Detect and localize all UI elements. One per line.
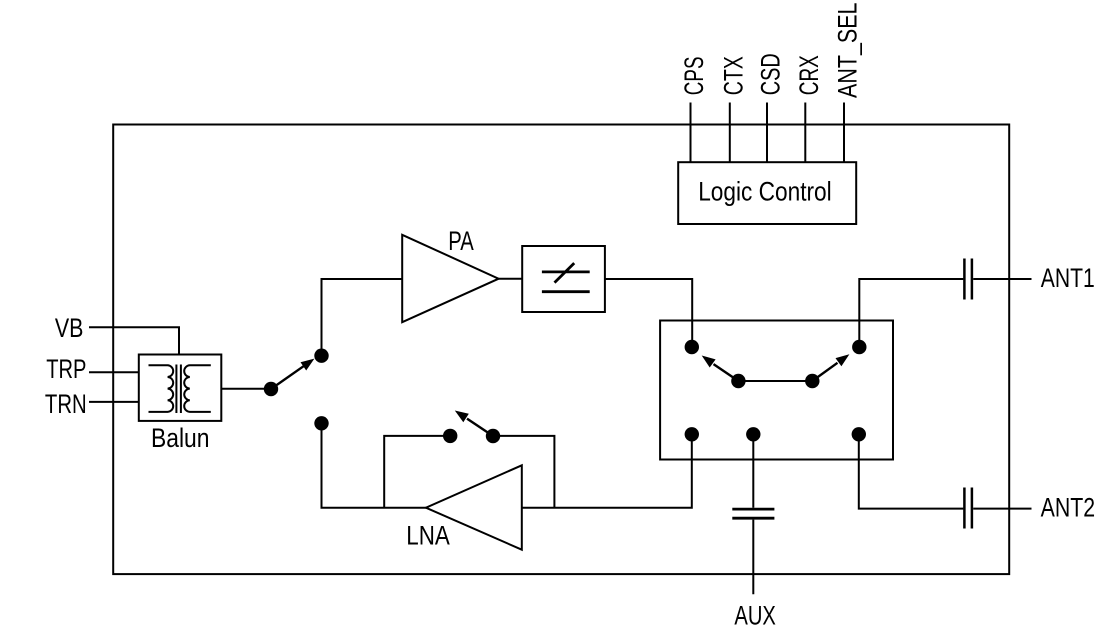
svg-text:CSD: CSD (756, 53, 786, 95)
svg-text:CPS: CPS (679, 56, 709, 95)
svg-text:LNA: LNA (406, 521, 450, 551)
chip outline box (113, 125, 1009, 575)
antenna switch SW2 left blade arrow (702, 356, 739, 382)
capacitor C3 AUX plates (732, 509, 774, 518)
antenna switch SW2 top-right dot (852, 340, 866, 354)
antenna switch SW2 bottom-left dot (685, 427, 699, 441)
transformer T1 primary winding (149, 365, 174, 412)
transformer T1 secondary winding (184, 365, 211, 412)
svg-text:CTX: CTX (718, 56, 748, 95)
wire TRP (89, 371, 139, 373)
svg-text:Logic Control: Logic Control (698, 177, 832, 207)
wire LNA bypass loop right (493, 436, 554, 508)
bypass switch SW3 left contact dot (443, 429, 457, 443)
antenna switch SW2 right blade arrow (812, 354, 849, 381)
antenna switch SW2 bottom-middle dot (746, 427, 760, 441)
wire CPS (690, 103, 692, 163)
switch SW1 top throw dot (314, 349, 328, 363)
antenna switch SW2 mid-left dot (731, 374, 745, 388)
filter FL1 box (522, 246, 605, 312)
antenna switch SW2 box (660, 321, 893, 460)
wire filter to antenna switch (605, 279, 692, 347)
wire CRX (804, 103, 806, 163)
Logic Control block U1 (678, 162, 856, 224)
svg-text:PA: PA (448, 226, 474, 256)
amplifier PA triangle (402, 235, 498, 322)
capacitor C2 ANT2 plates (964, 488, 972, 529)
wire LNA bypass loop left (384, 436, 450, 508)
bypass switch SW3 blade arrow (455, 411, 493, 437)
svg-text:TRN: TRN (45, 389, 87, 419)
switch SW1 common node dot (264, 382, 278, 396)
bypass switch SW3 right contact dot (486, 429, 500, 443)
amplifier LNA triangle (426, 465, 522, 549)
svg-text:ANT1: ANT1 (1041, 263, 1095, 293)
svg-text:ANT_SEL: ANT_SEL (832, 3, 862, 99)
wire switch SW1 top throw to PA (322, 279, 403, 356)
wire SW2 common bar (738, 380, 812, 382)
antenna switch SW2 mid-right dot (805, 374, 819, 388)
wire ANT_SEL (843, 103, 845, 163)
wire CTX (729, 103, 731, 163)
antenna switch SW2 top-left dot (685, 340, 699, 354)
filter FL1 symbol (542, 263, 590, 292)
svg-text:ANT2: ANT2 (1041, 492, 1096, 522)
capacitor C1 ANT1 plates (964, 259, 972, 300)
wire ANT2 (859, 434, 1032, 508)
wire ANT1 (859, 279, 1031, 347)
wire CSD (766, 103, 768, 163)
transformer T1 core (176, 365, 181, 414)
wire LNA rail (322, 423, 692, 507)
wire balun output (221, 388, 271, 390)
svg-text:AUX: AUX (734, 600, 776, 629)
wire VB (89, 327, 179, 354)
wire PA output (499, 278, 523, 280)
wire AUX (752, 434, 754, 594)
svg-text:Balun: Balun (151, 423, 210, 453)
switch SW1 blade arrow (271, 359, 314, 389)
svg-text:VB: VB (55, 313, 84, 343)
switch SW1 bottom throw dot (314, 416, 328, 430)
antenna switch SW2 bottom-right dot (852, 427, 866, 441)
svg-text:TRP: TRP (46, 354, 86, 384)
svg-text:CRX: CRX (794, 55, 824, 95)
wire TRN (89, 401, 139, 403)
transformer T1 Balun box (139, 355, 222, 421)
